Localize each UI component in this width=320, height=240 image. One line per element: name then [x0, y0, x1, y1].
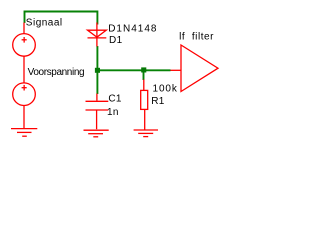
voltage source V1 Signaal — [13, 23, 36, 57]
voltage source V2 Voorspanning — [13, 83, 36, 106]
ground under sources — [11, 129, 37, 137]
wire top net: source V1 top to diode anode — [25, 12, 98, 25]
wire source V1 minus to V2 plus — [23, 56, 25, 83]
svg-text:lf filter: lf filter — [179, 32, 214, 43]
junction at diode/cap node — [95, 68, 100, 73]
wire V2 minus to ground — [23, 106, 25, 130]
ground under resistor — [134, 130, 158, 137]
svg-text:Voorspanning: Voorspanning — [28, 67, 85, 78]
svg-text:100k: 100k — [153, 83, 178, 94]
wire node down to capacitor C1 — [96, 70, 98, 94]
capacitor C1 — [86, 94, 109, 130]
resistor R1 — [141, 80, 148, 130]
junction at resistor node — [141, 67, 146, 72]
svg-text:D1N4148: D1N4148 — [108, 23, 157, 34]
svg-text:R1: R1 — [151, 96, 165, 107]
svg-text:1n: 1n — [107, 107, 119, 118]
wire diode cathode down to node — [96, 46, 98, 70]
wire node horizontal to op-amp input — [97, 69, 170, 71]
svg-text:C1: C1 — [108, 94, 122, 105]
op-amp buffer lf filter — [171, 45, 219, 92]
ground under capacitor — [84, 130, 109, 137]
diode D1 — [88, 23, 107, 47]
svg-text:Signaal: Signaal — [26, 17, 63, 28]
wire node down to resistor R1 — [143, 70, 145, 80]
svg-text:D1: D1 — [109, 35, 123, 46]
